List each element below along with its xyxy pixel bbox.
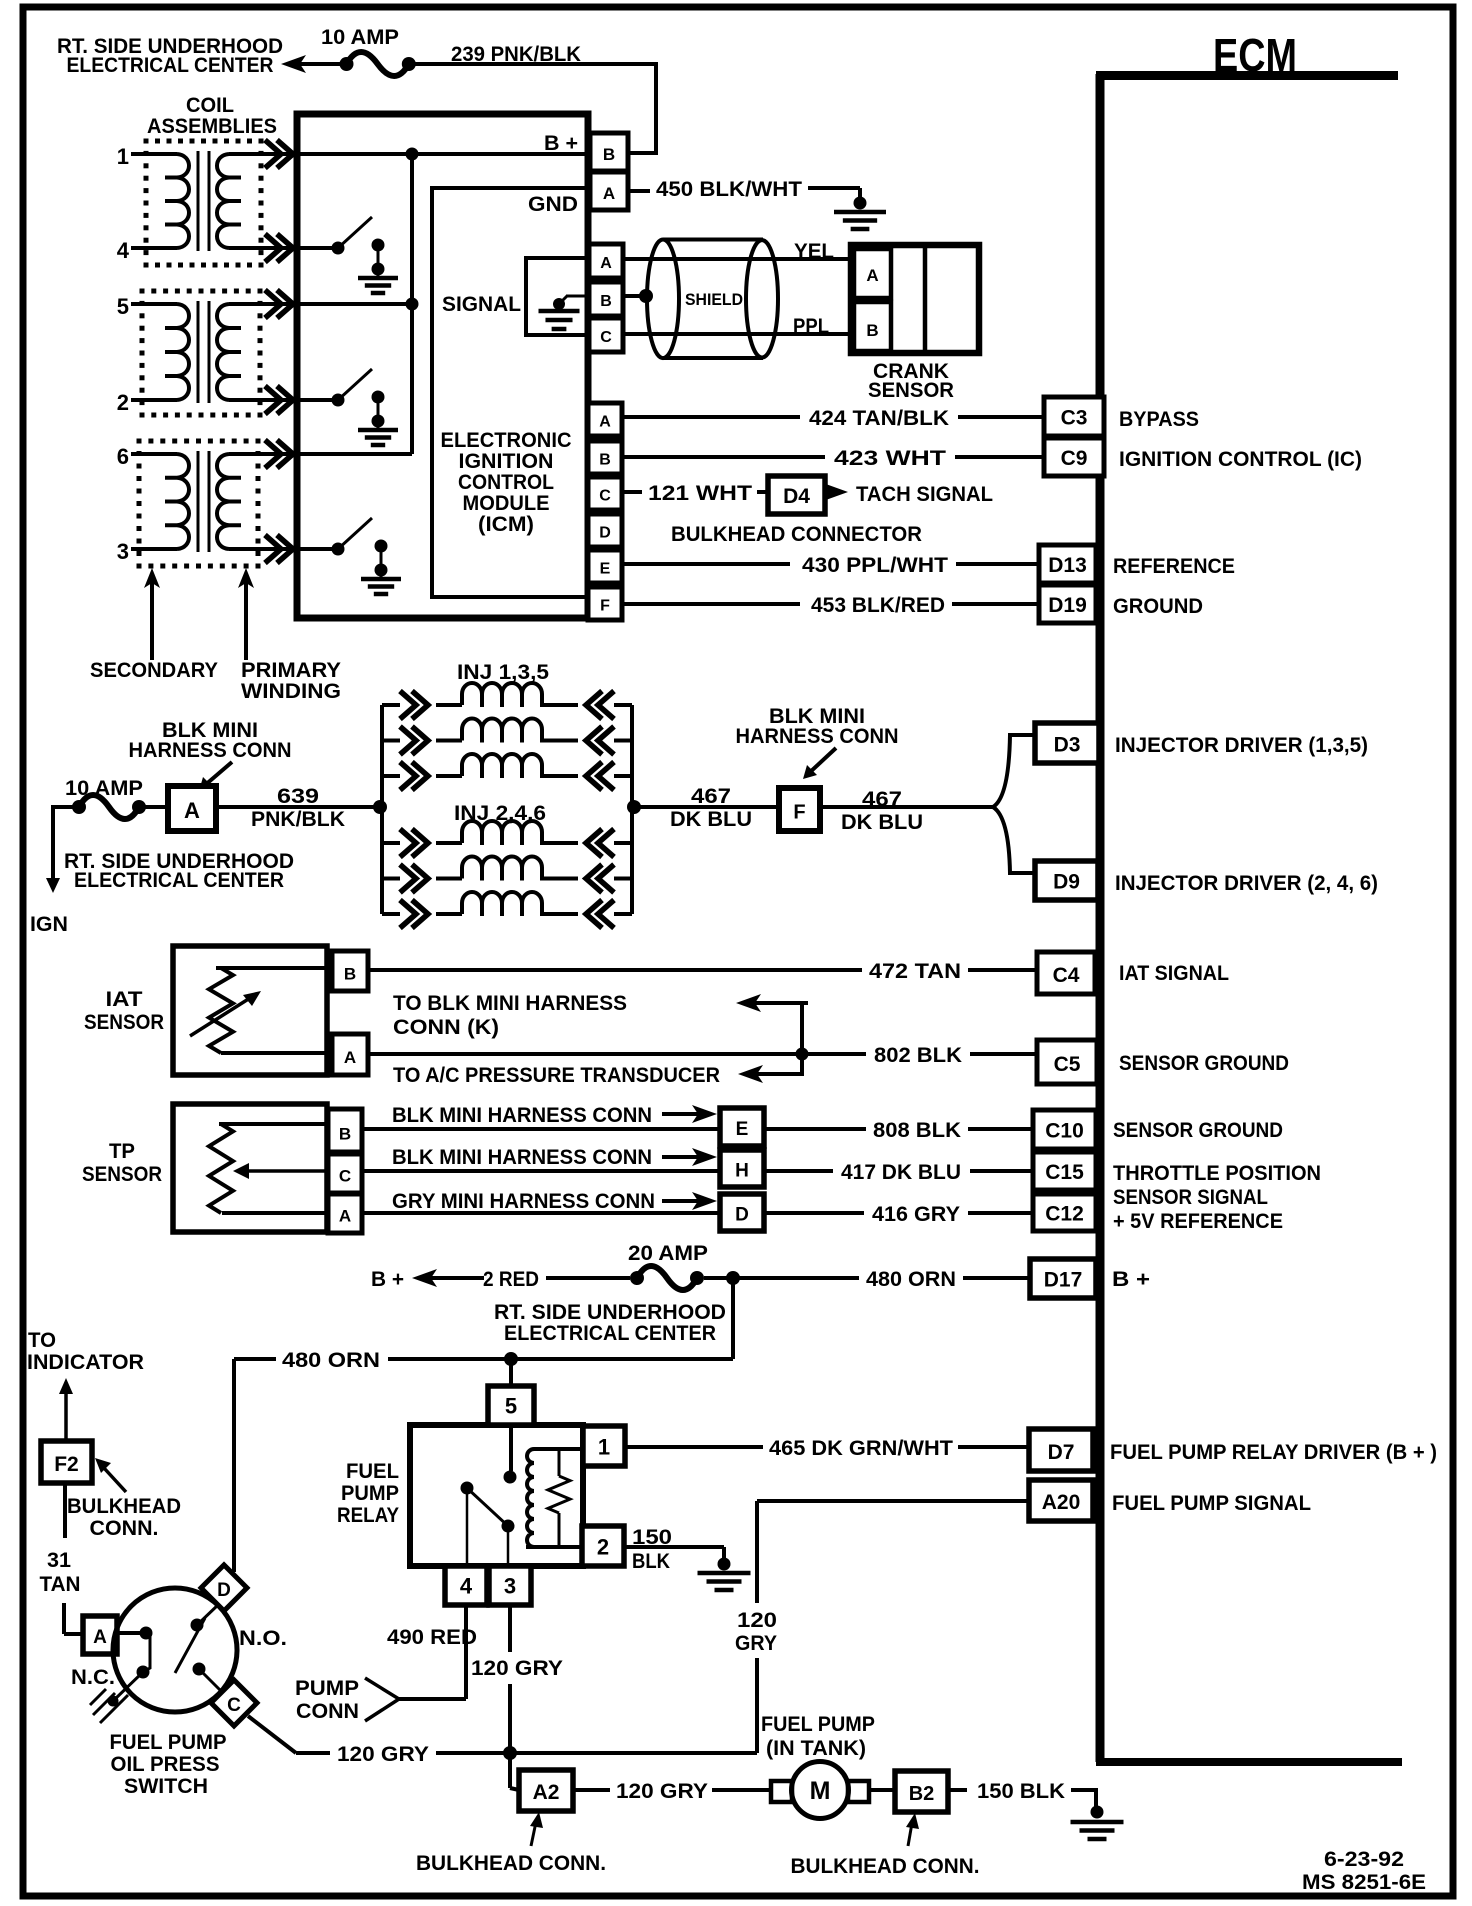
svg-text:IGNITION: IGNITION (459, 450, 554, 473)
wire pump to B2 (869, 1788, 895, 1792)
wire to blk mini harness K (800, 1003, 804, 1054)
svg-text:20 AMP: 20 AMP (628, 1242, 708, 1265)
wire 480 ORN down to D contact (232, 1359, 236, 1572)
wire TP C to H (362, 1169, 720, 1173)
connector chevron 4 (277, 234, 293, 262)
wire 480 ORN to D17 (704, 1276, 859, 1280)
junction injector right (627, 800, 641, 814)
wire 465 DK GRN/WHT (625, 1445, 763, 1449)
svg-text:SENSOR: SENSOR (84, 1011, 164, 1034)
wire primary 1 to ICM (229, 152, 299, 156)
svg-text:F2: F2 (54, 1453, 79, 1476)
svg-text:BYPASS: BYPASS (1119, 408, 1199, 431)
wire 239 PNK/BLK (409, 64, 656, 153)
svg-text:COIL: COIL (186, 94, 234, 117)
svg-text:D7: D7 (1048, 1441, 1075, 1464)
ECM pin C9 (1044, 438, 1104, 476)
wire fuse to connector A (139, 805, 168, 809)
coil 6/3 core (197, 451, 200, 552)
wire spark plug 4 (131, 246, 177, 250)
svg-text:RELAY: RELAY (337, 1504, 399, 1527)
svg-text:1: 1 (117, 144, 129, 169)
svg-text:PPL: PPL (793, 315, 829, 338)
svg-text:C3: C3 (1061, 407, 1088, 430)
svg-text:GRY: GRY (735, 1632, 777, 1655)
connector F2 (41, 1441, 92, 1483)
svg-text:B: B (603, 145, 615, 164)
svg-text:BLK MINI HARNESS CONN: BLK MINI HARNESS CONN (392, 1146, 652, 1169)
svg-text:BULKHEAD CONN.: BULKHEAD CONN. (416, 1852, 606, 1875)
arrow to connector F (808, 748, 836, 774)
ECM pin C5 (1037, 1040, 1097, 1084)
svg-text:150 BLK: 150 BLK (977, 1780, 1065, 1803)
svg-text:4: 4 (460, 1574, 473, 1599)
relay resistor (558, 1451, 561, 1476)
IGN arrow (46, 878, 60, 893)
IAT resistor (216, 966, 332, 970)
wire 150 BLK (relay) (623, 1545, 724, 1549)
svg-text:ELECTRICAL CENTER: ELECTRICAL CENTER (504, 1322, 716, 1345)
coil assembly 6/3 dotted box (137, 439, 142, 444)
svg-text:N.O.: N.O. (239, 1627, 287, 1650)
ECM pin A20 (1029, 1480, 1093, 1521)
svg-text:465 DK GRN/WHT: 465 DK GRN/WHT (769, 1437, 953, 1460)
svg-text:423 WHT: 423 WHT (834, 447, 946, 470)
coil 5/2 core (197, 301, 200, 403)
svg-text:H: H (735, 1160, 749, 1181)
relay pin 2 (582, 1526, 624, 1566)
svg-text:ELECTRICAL CENTER: ELECTRICAL CENTER (74, 869, 284, 892)
connector D4 (768, 476, 825, 514)
ECM pin D7 (1029, 1429, 1093, 1471)
wire spark plug 6 (131, 452, 177, 456)
svg-text:SIGNAL: SIGNAL (442, 293, 521, 316)
svg-text:480 ORN: 480 ORN (282, 1349, 380, 1372)
svg-text:F: F (793, 802, 805, 824)
injector branch y914 (382, 912, 400, 916)
ICM pin E (588, 550, 622, 583)
junction shield (639, 289, 653, 303)
TP wiper arrow (248, 1169, 328, 1173)
svg-text:D: D (599, 524, 611, 541)
coil 1/4 primary winding (217, 154, 241, 248)
wire 490 RED (464, 1605, 468, 1699)
svg-text:D4: D4 (783, 485, 810, 508)
connector A2 (519, 1770, 573, 1811)
wire split to D9 (993, 807, 1036, 873)
IAT pin B (332, 951, 368, 991)
wire spark plug 2 (131, 398, 177, 402)
ECM pin D19 (1039, 585, 1096, 623)
svg-text:5: 5 (117, 294, 129, 319)
svg-text:BLK MINI HARNESS CONN: BLK MINI HARNESS CONN (392, 1104, 652, 1127)
svg-text:C: C (227, 1695, 241, 1716)
svg-text:417 DK BLU: 417 DK BLU (841, 1161, 961, 1184)
svg-text:BULKHEAD: BULKHEAD (67, 1495, 181, 1518)
svg-text:C15: C15 (1045, 1161, 1084, 1184)
connector B2 (895, 1771, 948, 1812)
svg-text:C9: C9 (1061, 447, 1088, 470)
svg-text:TO BLK MINI HARNESS: TO BLK MINI HARNESS (393, 992, 627, 1015)
wire 480 ORN horizontal (234, 1357, 276, 1361)
svg-text:5: 5 (505, 1394, 517, 1419)
svg-text:B: B (600, 293, 612, 310)
junction B+ coil 1 (406, 148, 419, 161)
injector left bus (380, 705, 384, 914)
svg-text:E: E (600, 560, 611, 577)
svg-text:BLK: BLK (632, 1550, 670, 1573)
svg-text:430 PPL/WHT: 430 PPL/WHT (802, 554, 948, 577)
svg-text:(ICM): (ICM) (478, 513, 534, 536)
svg-text:YEL: YEL (794, 240, 834, 263)
wire 472 TAN (368, 968, 862, 972)
fuse 10 AMP (239 circuit) (340, 57, 354, 71)
connector A (blk mini harness) (168, 786, 216, 831)
fuel pump relay box (410, 1425, 583, 1566)
crank sensor connector (851, 245, 979, 353)
svg-text:DK BLU: DK BLU (670, 808, 752, 831)
svg-text:1: 1 (598, 1434, 610, 1459)
svg-text:D: D (735, 1204, 749, 1225)
svg-text:BULKHEAD CONNECTOR: BULKHEAD CONNECTOR (671, 523, 922, 546)
svg-text:IAT SIGNAL: IAT SIGNAL (1119, 962, 1229, 985)
svg-text:SHIELD: SHIELD (685, 291, 743, 309)
svg-text:808 BLK: 808 BLK (873, 1119, 961, 1142)
svg-text:MODULE: MODULE (463, 492, 550, 515)
svg-text:FUEL PUMP SIGNAL: FUEL PUMP SIGNAL (1112, 1492, 1311, 1515)
svg-text:453 BLK/RED: 453 BLK/RED (811, 594, 945, 617)
svg-text:120: 120 (737, 1609, 777, 1632)
TP sensor box (173, 1104, 327, 1232)
svg-text:467: 467 (691, 785, 731, 808)
svg-text:INJECTOR DRIVER (1,3,5): INJECTOR DRIVER (1,3,5) (1115, 734, 1368, 757)
IAT pin A (332, 1034, 368, 1075)
TP pin C (328, 1154, 362, 1193)
wire primary 3 to ICM (229, 547, 299, 551)
wire 467 DK BLU (left) (632, 805, 779, 809)
coil 5/2 primary winding (217, 304, 241, 400)
svg-text:A2: A2 (533, 1781, 560, 1804)
wire split to D3 (993, 735, 1036, 807)
wire 120 GRY to pump (573, 1788, 610, 1792)
relay switch blade (461, 1482, 474, 1495)
svg-text:PUMP: PUMP (341, 1482, 399, 1505)
wire junction to A2 (508, 1753, 512, 1788)
wire A20 fuel pump signal (757, 1499, 1029, 1503)
connector D (720, 1194, 764, 1231)
ICM pin D (588, 514, 622, 547)
svg-text:F: F (600, 597, 610, 614)
wire 417 DK BLU (764, 1169, 833, 1173)
svg-text:IGNITION CONTROL (IC): IGNITION CONTROL (IC) (1119, 448, 1362, 471)
injector branch y843 (382, 841, 400, 845)
wire 424 TAN/BLK (622, 415, 800, 419)
junction 480 ORN (726, 1271, 740, 1285)
wire 416 GRY (764, 1211, 864, 1215)
svg-text:472 TAN: 472 TAN (869, 960, 961, 983)
svg-text:GRY MINI HARNESS CONN: GRY MINI HARNESS CONN (392, 1190, 655, 1213)
svg-text:121 WHT: 121 WHT (648, 482, 752, 505)
svg-text:ELECTRONIC: ELECTRONIC (441, 429, 572, 452)
wire A into switch (117, 1631, 146, 1635)
wire 450 BLK/WHT (628, 189, 650, 193)
connector chevron 1 (277, 140, 293, 168)
coil 1/4 core (197, 151, 200, 251)
arrow to F2 (95, 1458, 111, 1473)
junction 802 (796, 1048, 809, 1061)
svg-text:B +: B + (371, 1268, 404, 1291)
svg-text:480 ORN: 480 ORN (866, 1268, 956, 1291)
svg-text:120 GRY: 120 GRY (337, 1743, 429, 1766)
svg-text:PRIMARY: PRIMARY (241, 659, 341, 682)
wire B+ bus (299, 152, 590, 156)
ICM driver switch at y549 (299, 547, 338, 551)
ICM pin B (588, 441, 622, 474)
coil 6/3 secondary winding (165, 454, 189, 549)
oil press NC contact (137, 1666, 150, 1679)
svg-text:REFERENCE: REFERENCE (1113, 555, 1235, 578)
svg-text:FUEL PUMP: FUEL PUMP (761, 1713, 875, 1736)
svg-text:DK BLU: DK BLU (841, 811, 923, 834)
ICM pin A (588, 403, 622, 436)
ICM pin A (crank) (589, 244, 623, 278)
injector branch y705 (382, 703, 400, 707)
junction B+ coil 5 (406, 298, 419, 311)
NC hash marks (100, 1695, 128, 1723)
svg-text:D9: D9 (1053, 871, 1080, 894)
svg-text:A: A (866, 266, 878, 285)
IAT sensor box (173, 946, 327, 1075)
oil press C contact (193, 1663, 206, 1676)
svg-text:A: A (184, 798, 200, 823)
svg-text:HARNESS CONN: HARNESS CONN (736, 725, 899, 748)
wire 20A down to 480 ORN (731, 1278, 735, 1359)
oil press switch blade (175, 1618, 205, 1673)
svg-text:D: D (217, 1580, 231, 1601)
svg-text:A: A (599, 413, 611, 430)
svg-text:A: A (344, 1048, 356, 1067)
svg-text:OIL PRESS: OIL PRESS (111, 1753, 220, 1776)
ground 450 (854, 197, 867, 210)
wire 2 RED (546, 1276, 630, 1280)
connector H (720, 1150, 764, 1187)
relay pin 1 (583, 1426, 625, 1466)
fuse 20 AMP (630, 1271, 644, 1285)
tach arrow (823, 483, 848, 501)
svg-text:CONN: CONN (296, 1700, 359, 1723)
svg-text:+ 5V REFERENCE: + 5V REFERENCE (1113, 1210, 1283, 1233)
coil assembly 5/2 dotted box (140, 289, 145, 294)
arrow secondary winding (144, 568, 160, 588)
ECM pin C15 (1033, 1152, 1096, 1190)
connector E (720, 1108, 764, 1146)
svg-text:C: C (599, 487, 611, 504)
ECM pin C3 (1044, 397, 1104, 436)
svg-text:M: M (810, 1777, 831, 1805)
svg-text:INDICATOR: INDICATOR (27, 1351, 144, 1374)
svg-text:RT. SIDE UNDERHOOD: RT. SIDE UNDERHOOD (494, 1301, 726, 1324)
svg-text:GND: GND (528, 193, 578, 216)
svg-text:C: C (339, 1167, 351, 1186)
wire 453 BLK/RED (622, 602, 800, 606)
svg-text:(IN TANK): (IN TANK) (766, 1737, 866, 1760)
fuel pump motor (771, 1781, 792, 1802)
ICM pin C (588, 477, 622, 510)
ICM signal ground (566, 295, 588, 298)
ICM signal box (526, 258, 588, 335)
ECM pin D17 (1030, 1259, 1096, 1298)
connector chevron 2 (277, 386, 293, 414)
svg-text:SENSOR GROUND: SENSOR GROUND (1113, 1119, 1283, 1142)
wire spark plug 3 (131, 547, 177, 551)
svg-text:GROUND: GROUND (1113, 595, 1203, 618)
svg-text:A: A (600, 255, 612, 272)
svg-text:INJ 1,3,5: INJ 1,3,5 (457, 661, 549, 684)
svg-text:N.C.: N.C. (71, 1666, 115, 1689)
svg-text:639: 639 (277, 785, 319, 808)
wire 639 PNK/BLK (216, 805, 382, 809)
svg-text:B2: B2 (909, 1783, 935, 1805)
oil press switch pin A (83, 1616, 117, 1654)
svg-text:SENSOR GROUND: SENSOR GROUND (1119, 1052, 1289, 1075)
svg-text:IAT: IAT (106, 988, 143, 1011)
relay pin 5 (488, 1386, 534, 1425)
ECM pin D9 (1035, 861, 1098, 900)
wire 150 BLK ground hook (1071, 1790, 1096, 1808)
svg-text:INJECTOR DRIVER (2, 4, 6): INJECTOR DRIVER (2, 4, 6) (1115, 872, 1378, 895)
ICM pin B (crank) (589, 282, 623, 316)
wire PPL crank C (623, 332, 852, 336)
coil 6/3 primary winding (217, 454, 241, 549)
ECM module box (1096, 74, 1105, 1762)
oil press switch body (113, 1588, 237, 1712)
wire 423 WHT (622, 455, 825, 459)
wire to A/C pressure transducer (752, 1054, 802, 1074)
wire spark plug 5 (131, 302, 177, 306)
svg-text:4: 4 (117, 238, 130, 263)
svg-text:TO: TO (28, 1329, 56, 1352)
svg-text:424 TAN/BLK: 424 TAN/BLK (809, 407, 949, 430)
svg-text:FUEL: FUEL (346, 1460, 399, 1483)
IAT arrow (190, 998, 250, 1036)
TP pin B (328, 1109, 362, 1152)
ground 150 pump (1091, 1806, 1104, 1819)
svg-text:FUEL PUMP: FUEL PUMP (110, 1731, 227, 1754)
svg-text:490 RED: 490 RED (387, 1626, 477, 1649)
svg-text:ELECTRICAL CENTER: ELECTRICAL CENTER (67, 54, 274, 77)
wire coil 5 to bus (299, 302, 412, 306)
ICM module box (297, 114, 588, 618)
svg-text:A: A (93, 1627, 107, 1648)
svg-text:A: A (339, 1207, 351, 1226)
svg-text:C12: C12 (1045, 1202, 1084, 1225)
wire C to 120 GRY (248, 1716, 296, 1753)
coil assembly 1/4 dotted box (144, 139, 149, 144)
injector branch y878.5 (382, 877, 400, 881)
connector chevron 6 (277, 440, 293, 468)
junction 120 GRY (503, 1746, 517, 1760)
ICM driver switch at y400 (299, 398, 338, 402)
wire primary 6 to ICM (229, 452, 299, 456)
svg-text:IGN: IGN (30, 913, 68, 936)
TP resistor (219, 1122, 328, 1126)
svg-text:A: A (603, 184, 615, 203)
svg-text:CONTROL: CONTROL (458, 471, 554, 494)
svg-text:3: 3 (117, 539, 129, 564)
svg-text:3: 3 (504, 1574, 516, 1599)
injector right bus (630, 705, 634, 914)
ICM pin A (GND) (590, 172, 628, 210)
svg-text:2 RED: 2 RED (483, 1268, 539, 1291)
oil press A contact (140, 1627, 153, 1640)
svg-text:SENSOR: SENSOR (82, 1163, 162, 1186)
wire TP A to D (362, 1211, 720, 1215)
svg-text:TP: TP (109, 1140, 135, 1163)
svg-text:31: 31 (47, 1549, 71, 1572)
wire 150 BLK (pump) (948, 1788, 967, 1792)
svg-text:ECM: ECM (1213, 29, 1297, 81)
wire shield drain (623, 294, 646, 298)
svg-text:TO A/C PRESSURE TRANSDUCER: TO A/C PRESSURE TRANSDUCER (393, 1064, 720, 1087)
svg-text:B +: B + (1112, 1268, 1150, 1291)
svg-text:SECONDARY: SECONDARY (90, 659, 218, 682)
svg-text:TAN: TAN (40, 1573, 81, 1596)
ICM driver switch at y248 (299, 246, 338, 250)
wire primary 2 to ICM (229, 398, 299, 402)
wire 120 GRY (pin 3) (508, 1605, 512, 1652)
wire IGN feed (53, 807, 79, 878)
svg-text:B +: B + (544, 132, 578, 155)
ECM pin C12 (1033, 1194, 1096, 1231)
pump connector chevron (365, 1678, 399, 1721)
svg-text:HARNESS CONN: HARNESS CONN (129, 739, 292, 762)
svg-text:6: 6 (117, 444, 129, 469)
svg-text:ASSEMBLIES: ASSEMBLIES (147, 115, 277, 138)
svg-text:B: B (866, 321, 878, 340)
wire TP B to E (362, 1127, 720, 1131)
relay contact from 5 (504, 1471, 517, 1484)
svg-text:WINDING: WINDING (241, 680, 341, 703)
svg-text:C10: C10 (1045, 1120, 1084, 1143)
svg-text:D13: D13 (1048, 554, 1087, 577)
svg-text:A20: A20 (1042, 1491, 1081, 1514)
svg-text:CONN (K): CONN (K) (393, 1016, 499, 1039)
wire coil 6 to bus (299, 452, 412, 456)
arrow primary winding (238, 568, 254, 588)
wire 430 PPL/WHT (622, 562, 790, 566)
svg-text:MS 8251-6E: MS 8251-6E (1302, 1871, 1426, 1894)
injector branch y740.5 (382, 739, 400, 743)
svg-text:B: B (599, 451, 611, 468)
wire spark plug 1 (131, 152, 177, 156)
svg-text:10 AMP: 10 AMP (65, 777, 143, 800)
ECM pin C10 (1033, 1110, 1096, 1149)
arrow B+ (412, 1269, 437, 1287)
svg-text:SENSOR SIGNAL: SENSOR SIGNAL (1113, 1186, 1268, 1209)
arrow to indicator (59, 1378, 73, 1394)
svg-text:416 GRY: 416 GRY (872, 1203, 960, 1226)
connector F (blk mini harness) (779, 788, 820, 831)
svg-text:D17: D17 (1044, 1269, 1083, 1292)
wire primary 5 to ICM (229, 302, 299, 306)
wire primary 4 to ICM (229, 246, 299, 250)
arrow to B2 (906, 1813, 919, 1829)
svg-text:BULKHEAD CONN.: BULKHEAD CONN. (791, 1855, 980, 1878)
svg-text:SENSOR: SENSOR (868, 379, 954, 402)
ECM pin D13 (1039, 545, 1096, 583)
TP pin A (328, 1194, 362, 1233)
relay pin 3 (489, 1566, 531, 1605)
